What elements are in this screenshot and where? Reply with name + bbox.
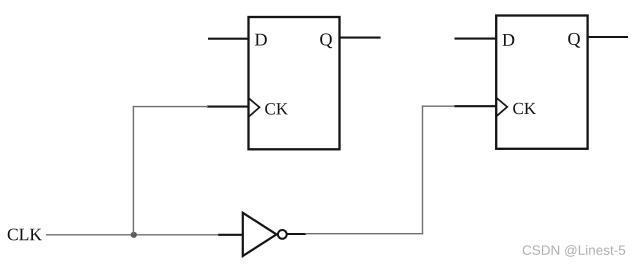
wire CLK horizontal: [46, 234, 219, 236]
U2 D input wire: [455, 38, 497, 40]
U1 clock edge triangle: [249, 98, 260, 116]
wire vertical to U2 CK: [422, 106, 424, 235]
U3 input stub: [218, 234, 243, 236]
U1 pin label Q: [320, 33, 332, 48]
wire horizontal into U1 CK: [133, 106, 208, 108]
U2 pin label CK: [513, 103, 536, 115]
U2 pin label Q: [568, 33, 580, 48]
wire horizontal into U2 CK: [422, 105, 455, 107]
U1 pin label CK: [265, 103, 288, 115]
inverter U3 triangle: [243, 213, 277, 256]
CLK label: [8, 229, 42, 241]
U3 output bubble: [278, 230, 287, 239]
junction node: [131, 232, 137, 238]
watermark CSDN @Linest-5: [523, 245, 626, 257]
wire inverter output horizontal: [305, 233, 423, 235]
U2 CK input stub: [454, 105, 496, 107]
U2 Q output wire: [588, 36, 628, 38]
U1 Q output wire: [340, 37, 381, 39]
flip-flop U1 body: [249, 17, 340, 149]
U3 output stub: [287, 233, 306, 235]
U2 clock edge triangle: [497, 98, 508, 116]
U1 CK input stub: [207, 106, 249, 108]
flip-flop U2 body: [496, 16, 587, 149]
U2 pin label D: [503, 34, 515, 46]
U1 D input wire: [208, 38, 249, 40]
U1 pin label D: [255, 34, 267, 46]
wire junction vertical to U1 CK: [132, 106, 134, 235]
